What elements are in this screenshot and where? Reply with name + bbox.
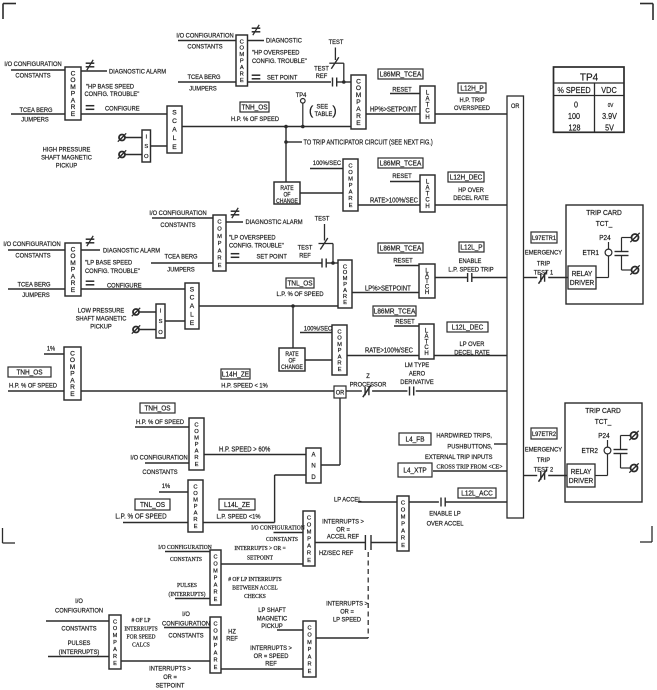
svg-text:128: 128 <box>569 123 581 133</box>
svg-text:(INTERRUPTS): (INTERRUPTS) <box>168 591 205 598</box>
svg-text:E: E <box>401 543 405 549</box>
svg-text:L86MR_TCEA: L86MR_TCEA <box>374 308 416 315</box>
svg-text:A: A <box>338 354 342 360</box>
svg-text:(INTERRUPTS): (INTERRUPTS) <box>59 649 100 657</box>
svg-text:I/O CONFIGURATION: I/O CONFIGURATION <box>4 61 62 69</box>
svg-text:H.P. % OF SPEED: H.P. % OF SPEED <box>136 419 184 427</box>
svg-text:CROSS TRIP FROM <CE>: CROSS TRIP FROM <CE> <box>436 464 503 470</box>
svg-text:AERO: AERO <box>409 370 425 378</box>
svg-text:Z: Z <box>366 373 370 381</box>
svg-text:S: S <box>159 319 163 325</box>
svg-text:TNL_OS: TNL_OS <box>287 280 313 287</box>
svg-text:TCEA BERG: TCEA BERG <box>187 74 220 82</box>
svg-text:L86MR_TCEA: L86MR_TCEA <box>380 245 422 252</box>
svg-text:"HP BASE SPEED: "HP BASE SPEED <box>86 83 135 91</box>
svg-text:H: H <box>424 351 428 357</box>
svg-text:I/O: I/O <box>75 598 83 606</box>
svg-text:L4_XTP: L4_XTP <box>403 467 427 474</box>
svg-text:TABLE: TABLE <box>315 111 333 119</box>
svg-text:SET POINT: SET POINT <box>257 253 287 261</box>
svg-text:I/O CONFIGURATION: I/O CONFIGURATION <box>158 545 212 551</box>
svg-text:L12L_P: L12L_P <box>460 244 483 251</box>
svg-text:DIAGNOSTIC ALARM: DIAGNOSTIC ALARM <box>103 247 160 255</box>
svg-text:E: E <box>194 524 198 530</box>
svg-text:E: E <box>71 111 76 118</box>
svg-text:TEST: TEST <box>314 65 329 73</box>
svg-text:S: S <box>190 286 195 293</box>
svg-text:A: A <box>425 185 429 191</box>
svg-text:C: C <box>348 163 352 169</box>
svg-text:EXTERNAL TRIP INPUTS: EXTERNAL TRIP INPUTS <box>425 454 493 462</box>
svg-text:P: P <box>338 348 342 354</box>
svg-text:TEST: TEST <box>298 244 313 252</box>
svg-text:C: C <box>172 118 177 125</box>
svg-text:JUMPERS: JUMPERS <box>21 116 49 124</box>
svg-text:E: E <box>218 263 222 269</box>
svg-text:C: C <box>425 109 430 115</box>
svg-text:INTERRUPTS >: INTERRUPTS > <box>250 645 292 653</box>
svg-text:LOW PRESSURE: LOW PRESSURE <box>78 307 124 315</box>
svg-text:CONFIG. TROUBLE": CONFIG. TROUBLE" <box>252 58 307 66</box>
svg-text:I/O CONFIGURATION: I/O CONFIGURATION <box>176 32 234 40</box>
svg-text:I/O CONFIGURATION: I/O CONFIGURATION <box>251 525 305 531</box>
svg-text:PUSHBUTTONS,: PUSHBUTTONS, <box>447 443 492 451</box>
svg-text:R: R <box>401 536 405 542</box>
svg-text:"LP BASE SPEED: "LP BASE SPEED <box>85 259 133 267</box>
svg-text:TEST 1: TEST 1 <box>534 269 554 277</box>
svg-text:L97ETR2: L97ETR2 <box>532 432 556 438</box>
svg-text:C: C <box>113 619 117 625</box>
svg-text:A: A <box>307 544 311 550</box>
svg-text:R: R <box>217 256 221 262</box>
svg-text:INTERRUPTS >: INTERRUPTS > <box>326 600 368 608</box>
svg-text:M: M <box>239 52 244 58</box>
svg-text:A: A <box>194 511 198 517</box>
svg-text:R: R <box>240 71 244 77</box>
svg-text:1%: 1% <box>47 345 56 353</box>
svg-text:ENABLE LP: ENABLE LP <box>429 510 460 518</box>
svg-text:SETPOINT: SETPOINT <box>156 682 185 690</box>
svg-text:E: E <box>307 558 311 564</box>
svg-text:M: M <box>307 529 312 535</box>
svg-text:CONSTANTS: CONSTANTS <box>168 632 203 640</box>
svg-text:I/O: I/O <box>182 611 190 619</box>
svg-text:TRIP: TRIP <box>537 260 550 268</box>
svg-text:M: M <box>217 234 222 240</box>
svg-text:TEST 2: TEST 2 <box>534 466 554 474</box>
svg-text:R: R <box>193 517 197 523</box>
svg-text:RESET: RESET <box>392 86 411 94</box>
svg-text:P: P <box>349 183 353 189</box>
svg-text:L86MR_TCEA: L86MR_TCEA <box>380 71 422 78</box>
svg-text:RESET: RESET <box>393 257 412 265</box>
svg-text:L14L_ZE: L14L_ZE <box>224 502 251 509</box>
svg-text:L.P. % OF SPEED: L.P. % OF SPEED <box>276 291 323 299</box>
svg-text:N: N <box>311 464 315 470</box>
svg-text:C: C <box>240 39 244 45</box>
svg-text:C: C <box>194 422 198 428</box>
svg-text:H.P. SPEED < 1%: H.P. SPEED < 1% <box>221 382 268 390</box>
svg-text:A: A <box>214 583 218 589</box>
svg-text:E: E <box>214 665 218 671</box>
svg-text:E: E <box>70 391 75 398</box>
svg-text:A: A <box>190 303 195 310</box>
svg-text:): ) <box>332 103 336 118</box>
svg-text:E: E <box>240 78 244 84</box>
svg-text:O: O <box>337 336 342 342</box>
svg-text:P: P <box>218 241 222 247</box>
svg-text:REF: REF <box>299 252 311 260</box>
svg-text:R: R <box>213 658 217 664</box>
svg-text:SHAFT MAGNETIC: SHAFT MAGNETIC <box>76 315 127 323</box>
svg-text:R: R <box>348 196 352 202</box>
svg-text:REF: REF <box>226 635 238 643</box>
svg-text:L12H_DEC: L12H_DEC <box>450 174 483 181</box>
svg-text:E: E <box>349 203 353 209</box>
svg-text:DIAGNOSTIC ALARM: DIAGNOSTIC ALARM <box>246 219 303 227</box>
svg-text:M: M <box>213 568 218 574</box>
svg-text:DRIVER: DRIVER <box>569 478 593 485</box>
svg-text:# OF LP INTERRUPTS: # OF LP INTERRUPTS <box>228 577 281 583</box>
svg-text:TNH_OS: TNH_OS <box>144 405 171 412</box>
svg-text:"HP OVERSPEED: "HP OVERSPEED <box>252 49 300 57</box>
svg-text:DECEL RATE: DECEL RATE <box>454 349 490 357</box>
svg-text:# OF LP: # OF LP <box>132 618 151 624</box>
svg-text:L4_FB: L4_FB <box>406 436 425 443</box>
svg-text:CONSTANTS: CONSTANTS <box>266 537 298 543</box>
svg-text:LP OVER: LP OVER <box>460 341 485 349</box>
svg-text:O: O <box>158 330 163 336</box>
svg-text:TNL_OS: TNL_OS <box>140 502 166 509</box>
svg-text:C: C <box>307 515 311 521</box>
svg-text:OF: OF <box>283 192 291 198</box>
svg-text:JUMPERS: JUMPERS <box>189 85 217 93</box>
svg-text:M: M <box>401 514 406 520</box>
svg-text:R: R <box>307 551 311 557</box>
svg-text:O: O <box>348 170 353 176</box>
svg-text:TRIP CARD: TRIP CARD <box>585 408 621 415</box>
svg-text:% SPEED: % SPEED <box>557 85 590 95</box>
svg-text:L: L <box>173 135 177 142</box>
svg-text:T: T <box>426 192 430 198</box>
svg-text:R: R <box>194 455 198 461</box>
svg-text:O: O <box>307 633 312 639</box>
svg-text:O: O <box>194 429 199 435</box>
svg-text:TRIP CARD: TRIP CARD <box>586 210 622 217</box>
svg-text:L.P. SPEED <1%: L.P. SPEED <1% <box>217 513 261 521</box>
svg-text:TO TRIP ANTICIPATOR CIRCUIT (S: TO TRIP ANTICIPATOR CIRCUIT (SEE NEXT FI… <box>304 139 433 147</box>
svg-text:CONFIGURE: CONFIGURE <box>105 105 140 113</box>
svg-text:E: E <box>338 367 342 373</box>
svg-text:C: C <box>213 621 217 627</box>
svg-text:P: P <box>240 59 244 65</box>
svg-text:INTERRUPTS >: INTERRUPTS > <box>322 518 364 526</box>
svg-text:TCEA BERG: TCEA BERG <box>19 107 52 115</box>
svg-text:P: P <box>214 643 218 649</box>
svg-text:H.P. SPEED > 60%: H.P. SPEED > 60% <box>219 446 270 454</box>
svg-text:CONSTANTS: CONSTANTS <box>187 43 222 51</box>
svg-text:L86MR_TCEA: L86MR_TCEA <box>380 160 422 167</box>
svg-text:PICKUP: PICKUP <box>261 623 282 631</box>
svg-text:M: M <box>193 497 198 503</box>
svg-text:OF: OF <box>288 358 296 364</box>
svg-text:R: R <box>337 361 341 367</box>
svg-text:M: M <box>348 176 353 182</box>
svg-text:PULSES: PULSES <box>177 583 197 589</box>
svg-text:M: M <box>337 342 342 348</box>
svg-text:TEST: TEST <box>329 39 344 47</box>
svg-text:H.P. % OF SPEED: H.P. % OF SPEED <box>9 382 57 390</box>
svg-text:PICKUP: PICKUP <box>56 162 77 170</box>
svg-text:O: O <box>239 46 244 52</box>
svg-text:H.P. TRIP: H.P. TRIP <box>459 97 484 105</box>
svg-text:S: S <box>144 144 148 150</box>
svg-text:E: E <box>172 144 177 151</box>
svg-text:LM TYPE: LM TYPE <box>405 362 430 370</box>
svg-text:3.9V: 3.9V <box>602 111 617 121</box>
svg-text:JUMPERS: JUMPERS <box>167 266 195 274</box>
svg-text:DIAGNOSTIC: DIAGNOSTIC <box>266 37 302 45</box>
svg-text:A: A <box>214 650 218 656</box>
svg-text:M: M <box>113 633 118 639</box>
svg-text:A: A <box>311 452 315 458</box>
svg-text:HP%>SETPOINT: HP%>SETPOINT <box>370 106 417 114</box>
svg-text:S: S <box>172 109 177 116</box>
svg-text:REF: REF <box>316 73 328 81</box>
svg-text:L12L_DEC: L12L_DEC <box>452 324 484 331</box>
svg-text:LP SHAFT: LP SHAFT <box>258 607 286 615</box>
svg-text:C: C <box>425 198 430 204</box>
svg-text:TCT_: TCT_ <box>596 221 613 228</box>
svg-text:P: P <box>113 640 117 646</box>
svg-text:E: E <box>113 661 117 667</box>
svg-text:LP%>SETPOINT: LP%>SETPOINT <box>365 285 411 293</box>
svg-text:100%/SEC: 100%/SEC <box>313 160 342 168</box>
svg-text:CONSTANTS: CONSTANTS <box>15 252 50 260</box>
svg-text:EMERGENCY: EMERGENCY <box>525 446 563 454</box>
svg-text:L97ETR1: L97ETR1 <box>532 236 557 242</box>
svg-text:I/O CONFIGURATION: I/O CONFIGURATION <box>130 454 188 462</box>
svg-text:OVERSPEED: OVERSPEED <box>454 105 490 113</box>
svg-text:LP ACCEL: LP ACCEL <box>334 496 362 504</box>
svg-text:O: O <box>144 154 149 160</box>
svg-text:O: O <box>113 626 118 632</box>
svg-text:TNH_OS: TNH_OS <box>241 104 268 111</box>
svg-text:TCEA BERG: TCEA BERG <box>17 281 50 289</box>
svg-text:100: 100 <box>568 111 581 121</box>
svg-text:C: C <box>217 219 221 225</box>
svg-text:TNH_OS: TNH_OS <box>16 369 43 376</box>
svg-text:DRIVER: DRIVER <box>570 280 594 287</box>
svg-text:CONSTANTS: CONSTANTS <box>142 469 177 477</box>
svg-text:C: C <box>337 329 341 335</box>
svg-text:O: O <box>213 629 218 635</box>
svg-text:OR =: OR = <box>163 674 177 682</box>
svg-text:L14H_ZE: L14H_ZE <box>222 371 250 378</box>
svg-text:INTERRUPTS: INTERRUPTS <box>124 626 157 632</box>
svg-text:EMERGENCY: EMERGENCY <box>525 249 563 257</box>
svg-text:A: A <box>401 529 405 535</box>
svg-text:SEE: SEE <box>317 103 329 111</box>
svg-text:L.P. SPEED TRIP: L.P. SPEED TRIP <box>448 266 493 274</box>
svg-text:ETR2: ETR2 <box>582 448 599 455</box>
svg-text:OVER ACCEL: OVER ACCEL <box>427 520 464 528</box>
svg-text:C: C <box>190 295 195 302</box>
svg-text:A: A <box>308 654 312 660</box>
svg-text:E: E <box>356 120 361 127</box>
svg-text:VDC: VDC <box>601 85 617 95</box>
svg-text:E: E <box>190 320 195 327</box>
svg-text:CALCS: CALCS <box>132 642 150 648</box>
svg-text:0: 0 <box>574 100 579 110</box>
svg-text:P: P <box>194 504 198 510</box>
svg-text:A: A <box>113 647 117 653</box>
svg-text:H: H <box>425 290 429 296</box>
svg-text:L.P. % OF SPEED: L.P. % OF SPEED <box>115 513 166 521</box>
svg-text:DERIVATIVE: DERIVATIVE <box>400 379 433 387</box>
svg-text:HZ/SEC REF: HZ/SEC REF <box>319 550 353 558</box>
svg-text:I/O CONFIGURATION: I/O CONFIGURATION <box>3 241 61 249</box>
svg-text:P: P <box>214 576 218 582</box>
svg-text:R: R <box>113 654 117 660</box>
svg-text:P: P <box>308 647 312 653</box>
svg-text:CONFIG. TROUBLE": CONFIG. TROUBLE" <box>85 268 140 276</box>
svg-text:0V: 0V <box>608 103 614 109</box>
svg-text:SETPOINT: SETPOINT <box>247 555 273 561</box>
svg-text:D: D <box>311 475 316 481</box>
svg-text:RELAY: RELAY <box>572 271 593 278</box>
svg-text:FOR SPEED: FOR SPEED <box>127 634 156 640</box>
svg-text:H: H <box>425 115 429 121</box>
svg-text:CONFIG. TROUBLE": CONFIG. TROUBLE" <box>85 91 140 99</box>
svg-text:M: M <box>307 640 312 646</box>
svg-text:E: E <box>214 597 218 603</box>
svg-text:C: C <box>401 500 405 506</box>
svg-text:C: C <box>307 625 311 631</box>
svg-text:I/O CONFIGURATION: I/O CONFIGURATION <box>149 210 207 218</box>
svg-text:CONFIGURATION: CONFIGURATION <box>55 607 103 615</box>
svg-text:MAGNETIC: MAGNETIC <box>257 615 288 623</box>
svg-text:TP4: TP4 <box>296 92 307 100</box>
svg-text:CHANGE: CHANGE <box>281 365 303 371</box>
svg-text:P: P <box>401 522 405 528</box>
svg-text:O: O <box>213 561 218 567</box>
svg-text:L: L <box>190 311 194 318</box>
svg-text:PROCESSOR: PROCESSOR <box>350 381 387 389</box>
svg-text:H: H <box>425 204 429 210</box>
svg-text:TEST: TEST <box>315 215 330 223</box>
svg-text:PICKUP: PICKUP <box>90 323 111 331</box>
svg-text:CHECKS: CHECKS <box>244 594 266 600</box>
svg-text:T: T <box>426 103 430 109</box>
svg-text:A: A <box>349 190 353 196</box>
svg-text:A: A <box>425 96 429 102</box>
svg-text:E: E <box>71 287 76 294</box>
svg-text:RATE: RATE <box>280 186 293 192</box>
svg-text:CONFIGURATION: CONFIGURATION <box>162 620 210 628</box>
svg-text:R: R <box>307 662 311 668</box>
svg-text:M: M <box>194 435 199 441</box>
svg-text:O: O <box>307 522 312 528</box>
svg-text:E: E <box>308 669 312 675</box>
svg-text:C: C <box>213 554 217 560</box>
svg-text:"LP OVERSPEED: "LP OVERSPEED <box>229 234 276 242</box>
svg-text:100%/SEC: 100%/SEC <box>304 325 333 333</box>
svg-text:A: A <box>172 127 177 134</box>
svg-text:A: A <box>240 65 244 71</box>
svg-text:TCT_: TCT_ <box>595 419 612 426</box>
svg-text:DECEL RATE: DECEL RATE <box>453 195 489 203</box>
svg-text:PULSES: PULSES <box>68 640 91 648</box>
svg-text:ETR1: ETR1 <box>583 250 600 257</box>
svg-text:P24: P24 <box>599 235 611 242</box>
svg-text:O: O <box>217 227 222 233</box>
svg-text:R: R <box>213 590 217 596</box>
svg-text:INTERRUPTS > OR =: INTERRUPTS > OR = <box>234 546 285 552</box>
svg-text:E: E <box>195 462 199 468</box>
svg-text:ENABLE: ENABLE <box>459 258 482 266</box>
svg-text:TRIP: TRIP <box>537 457 550 465</box>
svg-text:DIAGNOSTIC ALARM: DIAGNOSTIC ALARM <box>109 68 166 76</box>
svg-text:RELAY: RELAY <box>571 469 592 476</box>
svg-text:H.P. % OF SPEED: H.P. % OF SPEED <box>231 116 279 124</box>
svg-text:P: P <box>195 442 199 448</box>
svg-text:CONSTANTS: CONSTANTS <box>170 557 202 563</box>
svg-text:RESET: RESET <box>392 173 411 181</box>
svg-text:SHAFT MAGNETIC: SHAFT MAGNETIC <box>41 154 92 162</box>
svg-text:1%: 1% <box>162 483 171 491</box>
svg-text:P24: P24 <box>598 433 610 440</box>
svg-text:O: O <box>401 507 406 513</box>
svg-text:E: E <box>343 300 347 306</box>
svg-text:OR = SPEED: OR = SPEED <box>254 653 289 661</box>
svg-text:P: P <box>307 537 311 543</box>
svg-text:BETWEEN ACCEL: BETWEEN ACCEL <box>232 585 278 591</box>
svg-text:C: C <box>193 484 197 490</box>
svg-text:TCEA BERG: TCEA BERG <box>164 253 197 261</box>
svg-text:INTERRUPTS >: INTERRUPTS > <box>149 665 191 673</box>
svg-text:L12L_ACC: L12L_ACC <box>461 490 493 497</box>
svg-text:OR: OR <box>511 103 520 111</box>
svg-text:(: ( <box>309 103 314 118</box>
svg-text:REF: REF <box>265 660 277 668</box>
svg-text:OR: OR <box>336 390 345 396</box>
svg-text:HARDWIRED TRIPS,: HARDWIRED TRIPS, <box>436 432 492 440</box>
svg-text:CONFIG. TROUBLE": CONFIG. TROUBLE" <box>229 242 284 250</box>
svg-text:A: A <box>195 449 199 455</box>
svg-text:M: M <box>213 636 218 642</box>
svg-text:ACCEL REF: ACCEL REF <box>327 533 359 541</box>
svg-text:HIGH PRESSURE: HIGH PRESSURE <box>43 146 91 154</box>
svg-text:A: A <box>218 248 222 254</box>
svg-text:O: O <box>193 491 198 497</box>
svg-text:HP OVER: HP OVER <box>458 187 484 195</box>
svg-text:CHANGE: CHANGE <box>276 199 298 205</box>
svg-text:TP4: TP4 <box>580 72 599 83</box>
svg-text:SET POINT: SET POINT <box>267 74 297 82</box>
svg-text:LP SPEED: LP SPEED <box>333 616 362 624</box>
svg-text:CONSTANTS: CONSTANTS <box>160 222 195 230</box>
svg-text:RATE>100%/SEC: RATE>100%/SEC <box>370 197 418 205</box>
svg-text:5V: 5V <box>605 123 614 133</box>
svg-text:JUMPERS: JUMPERS <box>22 292 50 300</box>
svg-text:RATE>100%/SEC: RATE>100%/SEC <box>365 347 413 355</box>
svg-text:L12H_P: L12H_P <box>460 85 484 92</box>
svg-text:OR =: OR = <box>340 608 354 616</box>
svg-text:RATE: RATE <box>285 352 298 358</box>
svg-text:CONSTANTS: CONSTANTS <box>15 72 50 80</box>
svg-text:CONSTANTS: CONSTANTS <box>61 625 96 633</box>
